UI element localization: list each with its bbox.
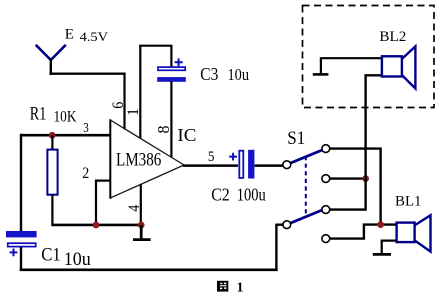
svg-text:10u: 10u [228, 65, 250, 84]
switch contact upper common [283, 161, 291, 169]
svg-text:LM386: LM386 [116, 149, 161, 170]
wire pin 6 vertical [123, 73, 125, 130]
node junction BL1 top [377, 221, 384, 228]
node junction pin2 [93, 222, 100, 229]
svg-text:C2: C2 [211, 185, 230, 205]
ground under BL1 [373, 253, 391, 256]
svg-text:R1: R1 [30, 103, 47, 124]
wire R1 top link [51, 135, 53, 150]
terminal bar BL2 [313, 73, 329, 76]
svg-text:BL1: BL1 [395, 193, 422, 209]
wire pin1 top to C3 [139, 45, 171, 67]
wire lower throw [330, 208, 367, 210]
op-amp U1 LM386 triangle [110, 119, 184, 198]
node junction R1 top [49, 132, 56, 139]
svg-text:4: 4 [126, 205, 143, 212]
label C3 10u [200, 64, 249, 84]
switch S1 upper lever [290, 150, 322, 163]
label E 4.5V [65, 27, 109, 44]
wire BL1 bottom terminal [382, 240, 397, 254]
switch S1 link dashed [305, 156, 307, 216]
wire pin 8 vertical [170, 81, 172, 158]
svg-text:10u: 10u [64, 250, 91, 270]
wire C1 bottom to rail [20, 247, 22, 271]
wire pin 4 vertical [140, 185, 142, 226]
ground under pin 4 [133, 225, 151, 240]
speaker BL1 [397, 215, 431, 251]
capacitor C3 bottom plate [157, 77, 186, 82]
switch contact middle [322, 175, 330, 183]
wire from E down [50, 59, 52, 76]
svg-text:6: 6 [110, 102, 127, 109]
wire C2 to switch [255, 164, 283, 167]
wire C1 top from pin3 rail [20, 230, 22, 233]
svg-text:BL2: BL2 [379, 29, 406, 45]
dashed remote box [303, 6, 435, 108]
resistor R1 [47, 150, 57, 195]
svg-text:2: 2 [82, 165, 89, 182]
wire BL2 top terminal [320, 57, 381, 74]
capacitor C2 right plate [248, 150, 254, 179]
capacitor C3 plus sign [175, 58, 183, 66]
capacitor C3 top plate [158, 67, 185, 70]
capacitor C1 bottom plate [8, 243, 36, 246]
wire pin 1 vertical [139, 46, 141, 139]
wire top throw to BL1 column [330, 148, 381, 225]
svg-text:8: 8 [154, 126, 173, 134]
wire middle contact [330, 177, 367, 179]
svg-text:IC: IC [177, 125, 196, 145]
node junction middle-BL2 [362, 175, 369, 182]
capacitor C1 plus sign [10, 249, 18, 257]
svg-text:5: 5 [208, 149, 215, 165]
svg-text:C3: C3 [200, 64, 218, 84]
svg-text:1: 1 [125, 108, 142, 116]
battery E antenna symbol [36, 45, 66, 60]
svg-text:100u: 100u [237, 185, 266, 205]
svg-text:S1: S1 [287, 129, 305, 149]
speaker BL2 [382, 46, 416, 88]
wire output pin 5 [183, 164, 238, 167]
wire E to pin 6 [50, 72, 126, 74]
wire bottom rail [20, 268, 278, 271]
wire pin 2 stub [96, 180, 111, 226]
capacitor C2 plus sign [229, 153, 237, 161]
label R1 10K [30, 103, 77, 125]
wire BL2 bottom column [365, 74, 382, 210]
node junction pin4 [138, 222, 145, 229]
capacitor C2 left plate [239, 151, 243, 178]
switch contact lower throw [322, 206, 330, 214]
wire lower common to bottom rail [276, 224, 282, 271]
svg-text:C1: C1 [41, 245, 61, 265]
svg-text:1: 1 [237, 281, 244, 293]
svg-text:4.5V: 4.5V [80, 29, 109, 44]
switch contact lower common [283, 221, 291, 229]
figure caption 图 1 [217, 281, 244, 293]
svg-text:E: E [65, 27, 74, 43]
capacitor C1 top plate [6, 231, 37, 237]
switch S1 lower lever [290, 210, 322, 223]
svg-text:3: 3 [83, 120, 89, 135]
wire pin 3 input [21, 134, 111, 137]
wire left rail [20, 134, 22, 232]
wire ground bus pin2 pin4 [51, 224, 142, 227]
wire R1 bottom link [51, 195, 53, 226]
switch contact upper throw [322, 145, 330, 153]
label C2 100u [211, 185, 266, 205]
label C1 10u [41, 245, 91, 270]
svg-text:10K: 10K [54, 109, 77, 126]
switch contact bottom [322, 235, 330, 243]
wire bottom contact to BL1 [330, 224, 396, 240]
